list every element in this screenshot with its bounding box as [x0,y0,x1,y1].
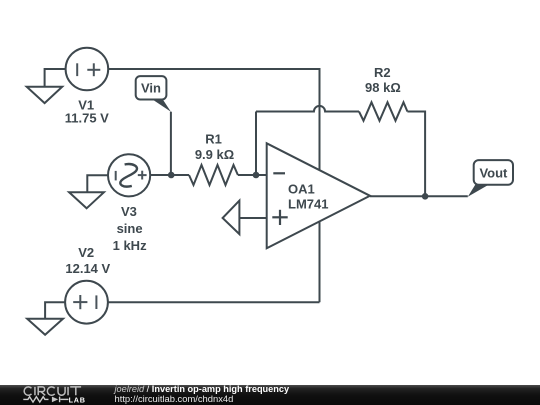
svg-text:1 kHz: 1 kHz [113,238,147,253]
ground (V3) [69,192,104,208]
wire feedback horizontal with hop over supply wire [256,106,359,112]
ground (V2) [27,319,63,335]
svg-text:sine: sine [117,221,143,236]
wire V1 positive to top rail and down to op-amp V+ pin [108,69,319,170]
svg-text:98 kΩ: 98 kΩ [365,80,401,95]
svg-text:11.75 V: 11.75 V [65,111,109,126]
node flag Vin [136,76,171,112]
resistor R2 [359,102,407,120]
node inverting input junction [253,172,260,179]
svg-text:Vout: Vout [479,165,508,180]
svg-text:OA1: OA1 [288,181,315,196]
wire non-inverting input to ground arrow [239,217,266,219]
svg-text:R1: R1 [205,132,222,147]
resistor R1 [189,165,238,185]
wire R2 to output node [407,112,425,197]
voltage source V3 (sine) [108,154,150,196]
footer title [115,385,290,395]
wire V3 negative to ground [87,175,108,192]
wire feedback up from inverting node [255,112,257,176]
wire Vin flag to input node [170,112,172,175]
svg-text:LM741: LM741 [288,196,328,211]
ground (non-inverting input, pointing left) [223,201,240,235]
svg-text:9.9 kΩ: 9.9 kΩ [195,147,234,162]
svg-text:R2: R2 [374,65,391,80]
footer url [115,394,234,404]
node flag Vout [468,160,513,197]
node Vin junction [168,172,175,179]
svg-text:LAB: LAB [69,395,86,404]
voltage source V2 [65,281,108,324]
footer bar [0,385,540,405]
svg-text:Vin: Vin [141,81,161,96]
op-amp OA1 [267,143,370,248]
wire bottom rail to V2 [108,301,320,303]
wire V2 negative to ground [45,302,65,319]
wire V1 negative to ground [45,69,66,87]
wire R1 to op-amp inverting input [238,174,267,176]
wire op-amp V- pin down to bottom rail [319,222,321,302]
CircuitLab logo [0,384,110,405]
svg-text:12.14 V: 12.14 V [65,261,110,276]
wire V3 positive to R1 [150,174,189,176]
svg-text:V3: V3 [121,204,137,219]
node output junction [422,193,429,200]
voltage source V1 [66,48,109,91]
wire op-amp output to Vout [370,195,468,197]
ground (V1) [27,87,63,103]
svg-text:V2: V2 [78,245,94,260]
